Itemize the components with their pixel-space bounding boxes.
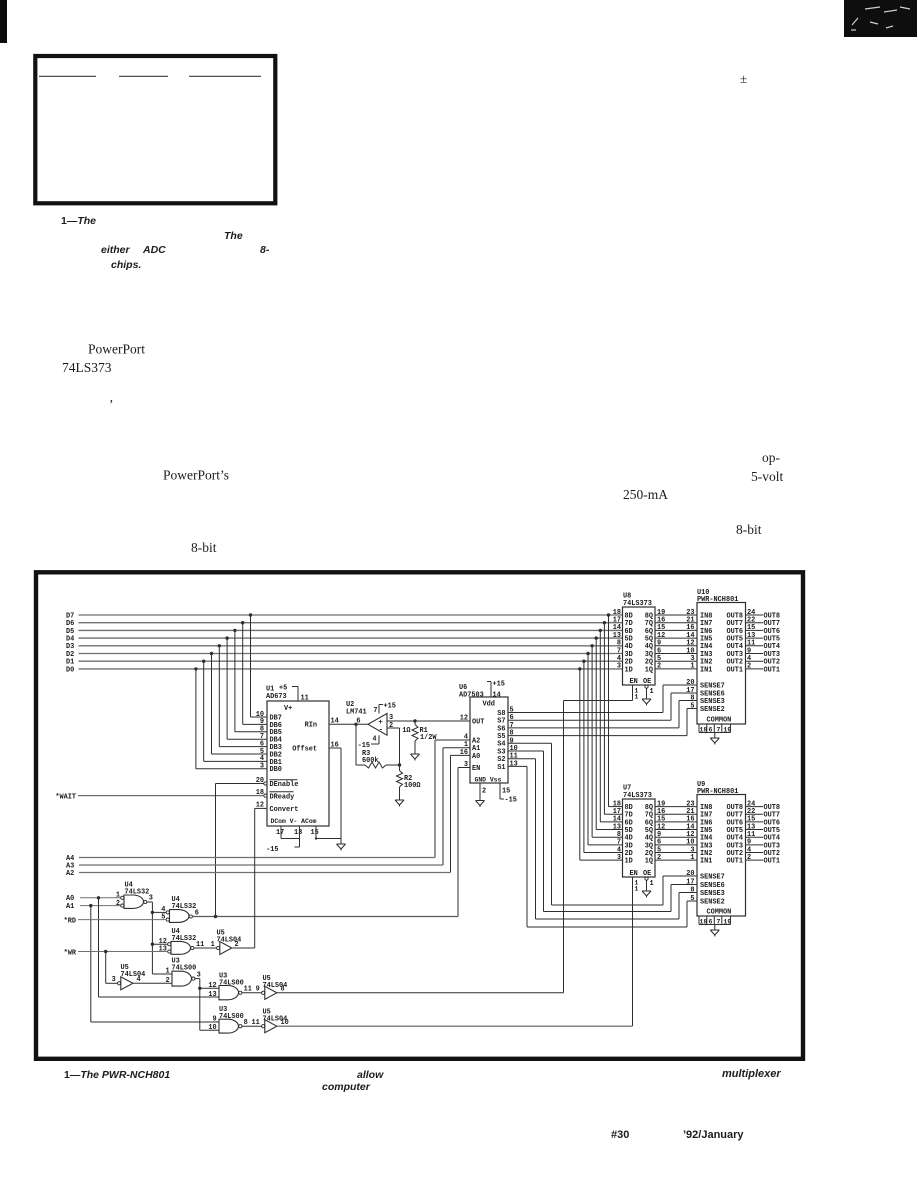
svg-text:PowerPort’s: PowerPort’s [163, 468, 229, 483]
svg-text:8: 8 [690, 886, 694, 894]
wire U7 OE to ground [646, 880, 648, 885]
wire D4 bus line [79, 637, 623, 639]
schematic figure frame [36, 572, 803, 1059]
junction D3 tap to U7 [590, 644, 593, 647]
svg-text:5: 5 [161, 913, 165, 921]
svg-text:-15: -15 [358, 742, 370, 750]
wire A2 line to U6 A0 [451, 754, 471, 756]
svg-text:2: 2 [747, 663, 751, 671]
svg-text:D0: D0 [66, 666, 74, 674]
svg-text:either: either [101, 244, 131, 256]
svg-text:SENSE3: SENSE3 [700, 890, 725, 898]
wire A4 line to U6 A2 [435, 739, 470, 741]
U2 +15 supply at pin 7 [378, 705, 380, 714]
U4b output bubble pin 6 [189, 915, 192, 918]
wire U9 OUT6 stub [746, 821, 764, 823]
wire U9 OUT3 stub [746, 844, 764, 846]
junction D7 tap to U1 [249, 613, 252, 616]
nand U3c body [219, 1019, 238, 1033]
empty figure box (faded photo/table) [35, 56, 275, 203]
svg-text:-15: -15 [505, 797, 517, 805]
junction R1 tap on analog line [413, 719, 416, 722]
junction D4 tap to U1 [225, 636, 228, 639]
svg-text:2: 2 [747, 854, 751, 862]
junction D0 tap to U1 [194, 667, 197, 670]
wire D7 to U1 DB7 [250, 615, 252, 717]
wire U6 S5 to U10 SENSE [508, 735, 687, 737]
svg-text:9: 9 [256, 986, 260, 994]
junction A0 branch [97, 896, 100, 899]
wire D3 to U7 4D [591, 646, 593, 837]
svg-text:*WR: *WR [64, 949, 77, 957]
driver U9 PWR-NCH801 body [697, 795, 746, 917]
svg-text:9: 9 [212, 1015, 216, 1023]
U4a input bubbles pins 1,2 [121, 896, 124, 899]
svg-text:AD673: AD673 [266, 693, 287, 701]
svg-text:SENSE2: SENSE2 [700, 898, 725, 906]
svg-text:DReady: DReady [270, 793, 295, 801]
wire U9 OUT7 stub [746, 813, 764, 815]
ground at U7 OE [642, 886, 651, 898]
svg-text:7: 7 [373, 707, 377, 715]
svg-text:8: 8 [690, 694, 694, 702]
U4b input bubbles pins 4,5 [166, 911, 169, 914]
junction decode chain to U4b pin 4 [151, 911, 154, 914]
svg-text:3: 3 [112, 976, 116, 984]
wire U8 8Q to U10 IN8 [655, 614, 697, 616]
wire A3 bus line [79, 864, 443, 866]
inverter U5c body [265, 986, 277, 999]
wire D6 to U7 7D [603, 623, 605, 815]
analog mux U6 AD7503 body [470, 697, 508, 783]
svg-text:3: 3 [149, 895, 153, 903]
wire U8 EN pin 11 to write-strobe A [632, 685, 634, 701]
nand U3b body [219, 986, 238, 1000]
resistor R1 1ohm 1/2W [414, 721, 416, 725]
inverter U5d body [265, 1020, 277, 1033]
junction D0 tap to U7 [578, 667, 581, 670]
wire D0 bus line [79, 668, 623, 670]
black scan patch top-right corner [844, 0, 917, 37]
resistor R2 100ohm [399, 765, 401, 771]
inverter U5a body [220, 942, 232, 955]
wire U10 OUT3 stub [746, 653, 764, 655]
svg-text:*WAIT: *WAIT [55, 793, 76, 801]
junction D3 tap to U1 [218, 644, 221, 647]
table rule segment 1 [39, 75, 96, 77]
svg-text:10: 10 [208, 1024, 216, 1032]
svg-text:A2: A2 [66, 870, 74, 878]
table rule segment 2 [119, 75, 168, 77]
svg-text:LM741: LM741 [346, 708, 367, 716]
wire U2 + input pin 3 to U6 OUT [387, 720, 470, 722]
wire U7 4Q to U9 IN4 [655, 836, 697, 838]
junction R3 feedback tap [354, 723, 357, 726]
svg-text:ADC: ADC [142, 244, 166, 256]
svg-text:S1: S1 [497, 764, 505, 772]
svg-text:12: 12 [208, 982, 216, 990]
svg-text:1: 1 [635, 886, 639, 893]
wire U7 1Q to U9 IN1 [655, 859, 697, 861]
wire U2 - input pin 2 to feedback node [387, 727, 400, 729]
wire U7 7Q to U9 IN7 [655, 813, 697, 815]
wire D2 to U1 DB2 [211, 654, 213, 755]
junction read-strobe to U1 DEnable [214, 915, 217, 918]
wire U7 6Q to U9 IN6 [655, 821, 697, 823]
svg-text:SENSE2: SENSE2 [700, 706, 725, 714]
junction chain to U3b pin 12 [198, 987, 201, 990]
svg-text:COMMON: COMMON [707, 717, 732, 725]
svg-text:±: ± [740, 71, 747, 86]
wire U6 S8 to U10 SENSE [508, 712, 663, 714]
wire U7 EN pin 11 to write-strobe B [632, 877, 634, 1026]
wire D5 to U7 6D [599, 630, 601, 822]
wire U7 8Q to U9 IN8 [655, 806, 697, 808]
svg-text:1: 1 [690, 663, 694, 671]
junction D1 tap to U7 [582, 660, 585, 663]
wire U3a out chain [195, 978, 200, 980]
junction D1 tap to U1 [202, 660, 205, 663]
wire D4 to U1 DB4 [226, 638, 228, 739]
svg-text:IN1: IN1 [700, 666, 712, 674]
junction R3 / R2 / pin2 node [398, 763, 401, 766]
wire read-strobe to U6 EN [458, 767, 470, 769]
wire *WAIT to U1 DReady [78, 795, 264, 797]
wire U10 OUT6 stub [746, 629, 764, 631]
svg-text:3: 3 [260, 763, 264, 771]
svg-text:1: 1 [165, 968, 169, 976]
wire U8 1Q to U10 IN1 [655, 668, 697, 670]
svg-text:1Ω: 1Ω [402, 727, 410, 735]
U7 OE pin 1 bubble [645, 877, 648, 880]
wire D3 bus line [79, 645, 623, 647]
svg-text:op-: op- [762, 450, 781, 465]
svg-text:5-volt: 5-volt [751, 469, 783, 484]
svg-text:*RD: *RD [64, 917, 76, 925]
svg-text:3: 3 [617, 663, 621, 671]
U8 OE pin 1 bubble [645, 685, 648, 688]
wire D1 to U7 2D [583, 661, 585, 852]
svg-text:13: 13 [208, 991, 216, 999]
svg-text:SENSE7: SENSE7 [700, 873, 725, 881]
wire D6 bus line [79, 622, 623, 624]
svg-text:SENSE3: SENSE3 [700, 698, 725, 706]
svg-text:13: 13 [510, 760, 518, 768]
svg-text:11: 11 [301, 695, 309, 703]
svg-text:5: 5 [690, 702, 694, 710]
svg-text:1: 1 [116, 891, 120, 899]
svg-text:RIn: RIn [305, 722, 317, 730]
svg-text:OUT1: OUT1 [764, 858, 781, 866]
svg-text:+5: +5 [279, 685, 287, 693]
inverter U5c input bubble pin 9 [262, 991, 265, 994]
wire read-strobe node (U4b out) [192, 916, 458, 918]
wire D4 to U7 5D [595, 638, 597, 829]
or-gate U4b body [170, 910, 190, 923]
svg-text:The: The [224, 230, 243, 242]
wire U3b out to inverter U5c [242, 992, 262, 994]
ground at U1 ACom/Offset [337, 839, 346, 851]
wire U10 OUT8 stub [746, 614, 764, 616]
svg-text:74LS373: 74LS373 [62, 360, 112, 375]
wire U6 GND pin 2 to ground [479, 783, 481, 795]
wire U3c out to inverter U5d [242, 1025, 262, 1027]
svg-text:20: 20 [686, 870, 694, 878]
wire D1 to U1 DB1 [203, 661, 205, 761]
or-gate U4a body [124, 895, 144, 908]
svg-text:DEnable: DEnable [270, 781, 299, 789]
wire A3 line to U6 A1 [443, 747, 470, 749]
svg-text:AD7503: AD7503 [459, 691, 484, 699]
svg-text:12: 12 [460, 714, 468, 722]
svg-text:A1: A1 [66, 903, 74, 911]
ground below R1 [411, 749, 420, 761]
driver U10 PWR-NCH801 body [697, 603, 746, 725]
wire *WR to U5b input [105, 952, 107, 984]
svg-text:chips.: chips. [111, 259, 141, 271]
svg-text:1: 1 [650, 880, 654, 888]
inverter U5b input bubble pin 3 [118, 982, 121, 985]
svg-text:5: 5 [690, 895, 694, 903]
junction A1 branch [89, 904, 92, 907]
wire U7 3Q to U9 IN3 [655, 844, 697, 846]
svg-text:+15: +15 [493, 681, 505, 689]
wire U9 OUT4 stub [746, 836, 764, 838]
ground at U6 GND [476, 795, 485, 807]
table rule segment 3 [189, 75, 261, 77]
U1 +5 power rail at pin 11 [292, 686, 298, 688]
wire U9 OUT1 stub [746, 859, 764, 861]
svg-text:Offset: Offset [292, 746, 317, 754]
wire D0 to U7 1D [579, 669, 581, 860]
wire U10 OUT4 stub [746, 645, 764, 647]
svg-text:OUT: OUT [472, 718, 484, 726]
svg-text:EN: EN [630, 870, 638, 878]
svg-text:OUT1: OUT1 [726, 666, 743, 674]
svg-text:14: 14 [493, 691, 501, 699]
wire U10 OUT1 stub [746, 668, 764, 670]
svg-text:74LS04: 74LS04 [121, 971, 146, 979]
svg-text:’: ’ [109, 397, 114, 412]
U6 +15 supply at pin 14 [490, 682, 492, 698]
svg-text:COMMON: COMMON [707, 909, 732, 917]
wire U10 OUT5 stub [746, 637, 764, 639]
wire U1 DEnable to read-strobe node [216, 783, 264, 785]
svg-text:EN: EN [472, 765, 480, 773]
wire U6 S4 to U9 SENSE [508, 742, 552, 744]
svg-text:V+: V+ [284, 705, 292, 713]
junction D2 tap to U7 [586, 652, 589, 655]
svg-text:2: 2 [116, 900, 120, 908]
svg-text:Vdd: Vdd [483, 701, 495, 709]
svg-text:4: 4 [372, 736, 376, 744]
svg-text:-15: -15 [266, 846, 278, 854]
U3b output bubble pin 11 [239, 991, 242, 994]
wire chain to U3c pin 10 [200, 1029, 219, 1031]
wire U6 S3 to U9 SENSE [508, 750, 544, 752]
svg-text:1Q: 1Q [645, 858, 653, 866]
svg-text:GND Vss: GND Vss [475, 776, 502, 783]
ground at U9 COMMON [710, 925, 719, 937]
junction decode chain to U4c pin 12 [151, 943, 154, 946]
U3c output bubble pin 8 [239, 1025, 242, 1028]
wire A4 bus line [79, 857, 435, 859]
wire U10 OUT2 stub [746, 660, 764, 662]
svg-text:15: 15 [311, 829, 319, 837]
junction D6 tap to U1 [241, 621, 244, 624]
latch U8 74LS373 body [623, 607, 656, 685]
wire A1 bus line [80, 905, 121, 907]
U2 -15 supply at pin 4 [378, 735, 380, 744]
svg-text:-: - [379, 727, 384, 735]
svg-text:2: 2 [389, 722, 393, 730]
svg-text:3: 3 [389, 714, 393, 722]
op-amp U2 body (output faces left) [368, 714, 387, 736]
svg-text:2: 2 [657, 663, 661, 671]
wire D5 to U1 DB5 [234, 630, 236, 731]
svg-text:SENSE7: SENSE7 [700, 682, 725, 690]
wire U7 2Q to U9 IN2 [655, 852, 697, 854]
svg-text:17: 17 [686, 878, 694, 886]
wire U8 4Q to U10 IN4 [655, 645, 697, 647]
junction D5 tap to U7 [599, 629, 602, 632]
wire U6 S2 to U9 SENSE [508, 758, 536, 760]
svg-text:+15: +15 [384, 703, 396, 711]
svg-text:13: 13 [159, 945, 167, 953]
wire D1 bus line [79, 660, 623, 662]
wire U9 OUT5 stub [746, 829, 764, 831]
wire U8 3Q to U10 IN3 [655, 653, 697, 655]
wire *WR to U4c pin 13 [78, 951, 168, 953]
U4c output bubble pin 11 [191, 946, 194, 949]
wire D6 to U1 DB6 [242, 623, 244, 725]
wire U8 2Q to U10 IN2 [655, 660, 697, 662]
wire D7 bus line [79, 614, 623, 616]
junction D6 tap to U7 [603, 621, 606, 624]
svg-text:IN1: IN1 [700, 858, 712, 866]
svg-text:allow: allow [357, 1069, 384, 1081]
wire decode chain to U3a pin 1 [152, 973, 172, 975]
svg-text:1: 1 [635, 694, 639, 701]
wire A1 to U3 NAND pin 9 [90, 906, 92, 1022]
svg-text:OUT1: OUT1 [764, 666, 781, 674]
svg-text:1: 1 [690, 854, 694, 862]
svg-text:8-bit: 8-bit [736, 522, 762, 537]
svg-text:1: 1 [211, 941, 215, 949]
wire U1 DCom pin17 to -15 [280, 826, 282, 839]
junction D7 tap to U7 [607, 613, 610, 616]
wire U1 ACom pin15 to analog ground [315, 826, 317, 839]
wire U6 Vss pin 15 to -15 [499, 783, 501, 799]
ADC U1 AD673 body [267, 701, 329, 826]
wire U1 V- pin13 to -15 [299, 826, 301, 847]
U3a output bubble pin 3 [192, 977, 195, 980]
inverter U5a input bubble pin 1 [217, 946, 220, 949]
wire D0 to U1 DB0 [195, 669, 197, 769]
junction D5 tap to U1 [233, 629, 236, 632]
wire U8 5Q to U10 IN5 [655, 637, 697, 639]
svg-text:17: 17 [276, 829, 284, 837]
svg-text:1D: 1D [625, 666, 633, 674]
junction D4 tap to U7 [595, 636, 598, 639]
svg-text:11: 11 [252, 1019, 260, 1027]
U4c input bubbles pins 12,13 [168, 943, 171, 946]
wire U4c out to inverter U5a [194, 947, 217, 949]
wire U4a out to decode chain [147, 901, 153, 903]
wire U6 S6 to U10 SENSE [508, 727, 679, 729]
svg-text:’92/January: ’92/January [683, 1129, 744, 1141]
black scan bar top-left edge [0, 0, 7, 43]
svg-text:15: 15 [502, 788, 510, 796]
wire A2 bus line [79, 872, 451, 874]
junction *WR to inverter U5b [104, 950, 107, 953]
wire D2 to U7 3D [587, 654, 589, 845]
svg-text:A0: A0 [472, 753, 480, 761]
svg-text:SENSE6: SENSE6 [700, 882, 725, 890]
svg-text:8-: 8- [260, 244, 270, 256]
nand U3a body [172, 971, 191, 986]
U4a output bubble pin 3 [144, 900, 147, 903]
svg-text:600k: 600k [362, 757, 379, 765]
svg-text:1Q: 1Q [645, 666, 653, 674]
wire A0 bus line [80, 897, 121, 899]
svg-text:2: 2 [165, 977, 169, 985]
svg-text:1—The: 1—The [61, 215, 96, 227]
svg-text:OUT1: OUT1 [726, 858, 743, 866]
svg-text:DCom V- ACom: DCom V- ACom [271, 818, 317, 825]
svg-text:2: 2 [482, 788, 486, 796]
wire D2 bus line [79, 653, 623, 655]
svg-text:2: 2 [657, 854, 661, 862]
wire A0 to U3 NAND pin 13 [98, 898, 100, 997]
svg-text:PowerPort: PowerPort [88, 342, 145, 357]
svg-text:Convert: Convert [270, 806, 299, 814]
ground below R2 [395, 795, 404, 807]
svg-text:3: 3 [617, 854, 621, 862]
svg-text:20: 20 [686, 679, 694, 687]
svg-text:EN: EN [630, 678, 638, 686]
svg-text:8-bit: 8-bit [191, 540, 217, 555]
wire U6 S1 to U9 SENSE [508, 765, 527, 767]
latch U7 74LS373 body [623, 799, 656, 877]
wire U7 5Q to U9 IN5 [655, 829, 697, 831]
wire *RD to U4b pin 5 [78, 919, 166, 921]
inverter U5d input bubble pin 11 [262, 1025, 265, 1028]
wire U9 OUT2 stub [746, 852, 764, 854]
svg-text:100Ω: 100Ω [404, 782, 421, 790]
wire U8 6Q to U10 IN6 [655, 629, 697, 631]
svg-text:multiplexer: multiplexer [722, 1068, 781, 1080]
wire U1 RIn to U2 output pin 6 [329, 723, 368, 725]
svg-text:13: 13 [294, 829, 302, 837]
inverter U5b body [121, 977, 133, 990]
wire U1 Offset pin16 down to analog ground [329, 747, 341, 749]
wire U6 S7 to U10 SENSE [508, 719, 671, 721]
svg-text:1D: 1D [625, 858, 633, 866]
wire U8 OE to ground [646, 688, 648, 693]
svg-text:1: 1 [650, 688, 654, 696]
resistor R3 600k feedback [355, 724, 357, 765]
wire U10 OUT7 stub [746, 622, 764, 624]
wire U8 7Q to U10 IN7 [655, 622, 697, 624]
wire D7 to U7 8D [608, 615, 610, 807]
ground at U10 COMMON [710, 733, 719, 745]
junction D2 tap to U1 [210, 652, 213, 655]
or-gate U4c body [171, 941, 190, 954]
svg-text:250-mA: 250-mA [623, 487, 668, 502]
wire D5 bus line [79, 629, 623, 631]
wire D3 to U1 DB3 [218, 646, 220, 747]
